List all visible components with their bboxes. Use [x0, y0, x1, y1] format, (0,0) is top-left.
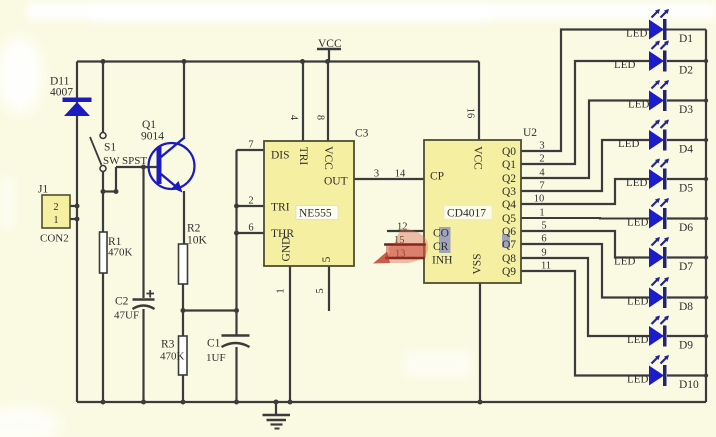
svg-text:47UF: 47UF: [114, 310, 139, 322]
svg-text:9014: 9014: [141, 131, 164, 143]
svg-text:D6: D6: [679, 222, 693, 234]
svg-text:6: 6: [541, 234, 546, 245]
svg-text:S1: S1: [104, 142, 116, 154]
svg-text:CD4017: CD4017: [447, 208, 486, 220]
svg-text:CON2: CON2: [40, 233, 69, 245]
svg-text:4: 4: [288, 115, 299, 121]
svg-text:D4: D4: [679, 144, 693, 156]
svg-text:VCC: VCC: [322, 146, 334, 170]
svg-text:C2: C2: [115, 296, 129, 308]
svg-text:Q0: Q0: [502, 146, 516, 158]
svg-text:LED: LED: [628, 99, 649, 111]
svg-text:2: 2: [53, 202, 58, 213]
svg-text:U2: U2: [523, 127, 537, 139]
svg-text:2: 2: [539, 154, 544, 165]
svg-text:5: 5: [541, 221, 546, 232]
svg-text:TRI: TRI: [271, 202, 290, 214]
svg-text:D7: D7: [679, 261, 693, 273]
svg-text:LED: LED: [626, 28, 647, 40]
svg-text:Q1: Q1: [502, 159, 516, 171]
svg-text:4007: 4007: [50, 87, 73, 99]
svg-text:LED: LED: [627, 217, 648, 229]
svg-text:D5: D5: [679, 183, 693, 195]
svg-text:10: 10: [534, 194, 545, 205]
svg-text:470K: 470K: [160, 351, 185, 363]
svg-text:6: 6: [248, 223, 253, 234]
svg-text:8: 8: [315, 115, 326, 120]
svg-text:TRI: TRI: [297, 147, 309, 166]
svg-text:1UF: 1UF: [206, 352, 226, 364]
svg-text:D1: D1: [679, 33, 693, 45]
svg-text:3: 3: [539, 141, 544, 152]
svg-text:R2: R2: [187, 223, 201, 235]
svg-text:VCC: VCC: [471, 146, 483, 170]
svg-text:Q6: Q6: [502, 226, 516, 238]
svg-text:2: 2: [248, 196, 253, 207]
svg-text:R3: R3: [161, 339, 175, 351]
svg-text:16: 16: [465, 108, 476, 119]
svg-text:INH: INH: [432, 255, 452, 267]
svg-text:D9: D9: [679, 340, 693, 352]
svg-text:9: 9: [541, 248, 546, 259]
svg-text:C1: C1: [207, 338, 221, 350]
svg-text:LED: LED: [614, 256, 635, 268]
svg-text:Q9: Q9: [502, 266, 516, 278]
svg-text:LED: LED: [627, 374, 648, 386]
svg-text:5: 5: [321, 256, 333, 262]
svg-text:GND: GND: [281, 237, 293, 262]
svg-text:Q8: Q8: [502, 253, 516, 265]
svg-text:OUT: OUT: [324, 176, 348, 188]
svg-text:CO: CO: [433, 228, 449, 240]
svg-text:Q4: Q4: [502, 199, 516, 211]
svg-text:LED: LED: [618, 138, 639, 150]
svg-text:D10: D10: [679, 379, 699, 391]
svg-text:14: 14: [395, 169, 406, 180]
svg-text:1: 1: [275, 288, 286, 293]
svg-text:Q5: Q5: [502, 213, 516, 225]
svg-text:1: 1: [539, 208, 544, 219]
svg-text:Q2: Q2: [502, 173, 516, 185]
svg-text:7: 7: [539, 181, 544, 192]
svg-text:LED: LED: [627, 296, 648, 308]
svg-text:Q1: Q1: [142, 119, 156, 131]
svg-text:CP: CP: [430, 171, 444, 183]
svg-text:Q7: Q7: [502, 239, 516, 251]
svg-text:VSS: VSS: [472, 253, 484, 274]
svg-text:3: 3: [374, 169, 379, 180]
svg-text:11: 11: [541, 261, 551, 272]
svg-text:LED: LED: [626, 177, 647, 189]
svg-text:4: 4: [539, 168, 545, 179]
svg-text:D8: D8: [679, 301, 693, 313]
svg-text:Q3: Q3: [502, 186, 516, 198]
svg-text:470K: 470K: [108, 247, 133, 259]
svg-text:C3: C3: [355, 128, 369, 140]
svg-text:5: 5: [315, 288, 326, 293]
svg-text:D3: D3: [679, 104, 693, 116]
svg-text:D2: D2: [679, 65, 693, 77]
svg-text:10K: 10K: [187, 235, 208, 247]
svg-text:VCC: VCC: [318, 38, 342, 50]
svg-text:1: 1: [53, 215, 58, 226]
svg-text:CR: CR: [433, 241, 449, 253]
svg-text:LED: LED: [627, 334, 648, 346]
svg-text:SW SPST: SW SPST: [103, 155, 147, 167]
svg-text:DIS: DIS: [271, 150, 290, 162]
svg-text:NE555: NE555: [299, 208, 332, 220]
svg-text:7: 7: [248, 140, 253, 151]
svg-text:J1: J1: [38, 184, 48, 196]
svg-text:LED: LED: [614, 59, 635, 71]
